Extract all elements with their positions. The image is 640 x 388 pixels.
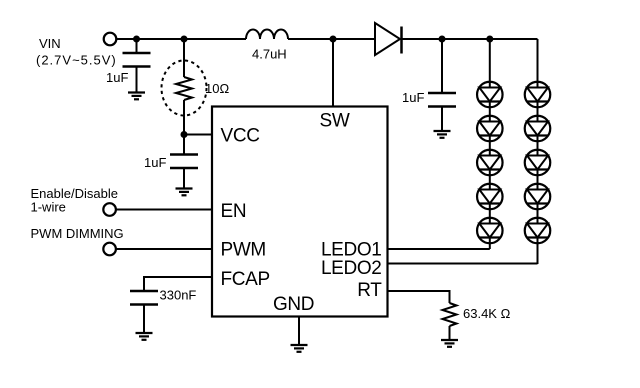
svg-text:1-wire: 1-wire: [31, 200, 66, 215]
svg-text:63.4K Ω: 63.4K Ω: [463, 306, 511, 321]
svg-text:LEDO2: LEDO2: [321, 258, 382, 279]
svg-text:RT: RT: [357, 280, 382, 301]
svg-text:1uF: 1uF: [402, 90, 424, 105]
svg-text:SW: SW: [320, 111, 350, 132]
svg-text:10Ω: 10Ω: [205, 81, 229, 96]
svg-text:PWM DIMMING: PWM DIMMING: [31, 226, 124, 241]
svg-text:VCC: VCC: [221, 126, 260, 147]
svg-text:VIN: VIN: [39, 36, 61, 51]
svg-text:(2.7V~5.5V): (2.7V~5.5V): [36, 53, 117, 68]
svg-text:EN: EN: [221, 201, 247, 222]
svg-text:1uF: 1uF: [106, 70, 128, 85]
svg-text:GND: GND: [273, 294, 314, 315]
svg-text:4.7uH: 4.7uH: [252, 47, 287, 62]
svg-text:PWM: PWM: [221, 240, 266, 261]
svg-text:330nF: 330nF: [160, 288, 197, 303]
svg-text:1uF: 1uF: [144, 155, 166, 170]
svg-text:FCAP: FCAP: [221, 269, 270, 290]
